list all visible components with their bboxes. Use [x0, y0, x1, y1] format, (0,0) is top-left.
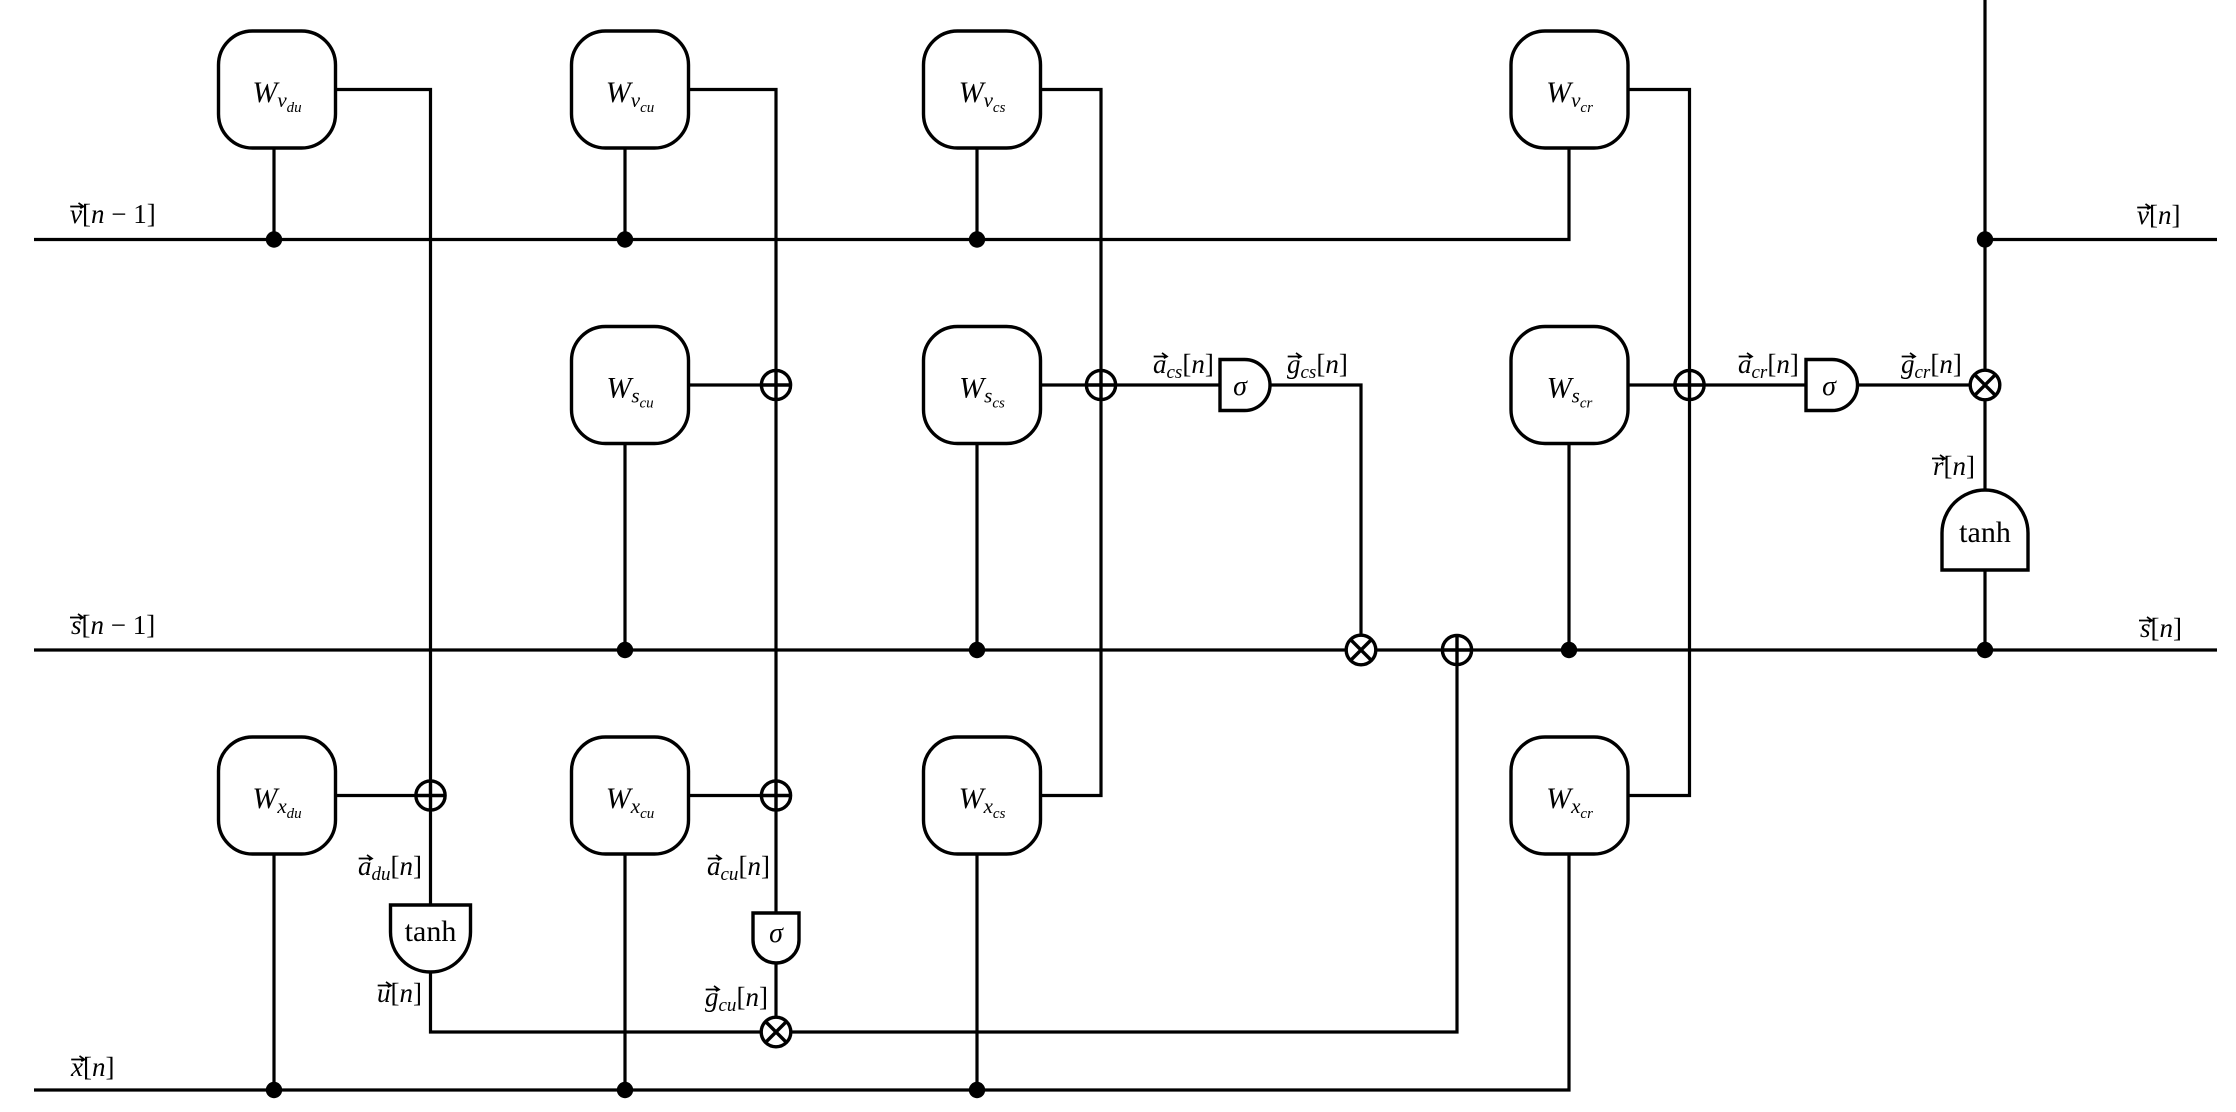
weight block W_s_cu — [572, 327, 689, 444]
junction dot x bus col cs — [969, 1082, 985, 1098]
wire W_s_cr bottom stub — [1567, 444, 1570, 651]
weight block W_s_cr — [1511, 327, 1628, 444]
wire W_v_cs bottom stub — [975, 148, 978, 240]
adder node at W_x_cu output — [761, 781, 790, 810]
gate tanh du (downward) — [391, 905, 471, 972]
wire W_x_du bottom stub — [272, 854, 275, 1090]
junction dot x bus col cu — [617, 1082, 633, 1098]
svg-text:gcs[n]: gcs[n] — [1287, 349, 1348, 383]
svg-text:s[n]: s[n] — [2140, 613, 2182, 643]
wire v[n] vertical from top edge to multiplier — [1983, 0, 1986, 370]
weight block W_v_cu — [572, 31, 689, 148]
weight block W_x_cu — [572, 737, 689, 854]
weight block W_x_cr — [1511, 737, 1628, 854]
svg-text:acr[n]: acr[n] — [1738, 349, 1799, 383]
wire W_s_cs bottom stub — [975, 444, 978, 651]
weight block W_x_du — [219, 737, 336, 854]
junction dot x bus col du — [266, 1082, 282, 1098]
wire x[n] bus — [34, 854, 1569, 1090]
wire W_v_cu bottom stub — [623, 148, 626, 240]
adder node at W_s_cr output — [1675, 370, 1704, 399]
junction dot v bus col cu — [617, 231, 633, 247]
adder node at W_s_cs output — [1086, 370, 1115, 399]
weight block W_v_cs — [924, 31, 1041, 148]
wire v[n] output segment — [1985, 238, 2217, 241]
wire s[n-1] bus — [34, 648, 2217, 651]
wire W_s_cs output through adder to sigma cs — [1041, 383, 1221, 386]
weight block W_v_cr — [1511, 31, 1628, 148]
svg-text:σ: σ — [1233, 371, 1248, 402]
wire W_x_cu output to adder — [689, 794, 777, 797]
wire W_x_cu bottom stub — [623, 854, 626, 1090]
junction dot s bus col cs — [969, 642, 985, 658]
svg-text:s[n − 1]: s[n − 1] — [71, 610, 155, 640]
wire tanh to s bus — [1983, 570, 1986, 650]
junction dot s bus col cr — [1561, 642, 1577, 658]
junction dot s bus tanh — [1977, 642, 1993, 658]
wire r[n] multiplier to tanh — [1983, 401, 1986, 491]
junction dot v bus col cs — [969, 231, 985, 247]
wire W_s_cu bottom stub — [623, 444, 626, 651]
gate sigma cr (rightward) — [1806, 360, 1858, 411]
wire W_s_cu output to adder — [689, 383, 777, 386]
junction dot v bus col du — [266, 231, 282, 247]
gate sigma cu (downward) — [753, 913, 799, 963]
weight block W_s_cs — [924, 327, 1041, 444]
svg-text:v[n − 1]: v[n − 1] — [70, 199, 156, 229]
wire g_cr to multiplier — [1858, 383, 1986, 386]
svg-text:x[n]: x[n] — [70, 1052, 114, 1082]
svg-text:gcr[n]: gcr[n] — [1901, 349, 1962, 383]
weight block W_v_du — [219, 31, 336, 148]
multiplier node g_cr r[n] — [1970, 370, 2000, 400]
wire v[n-1] bus — [34, 148, 1569, 240]
gate sigma cs (rightward) — [1220, 360, 1270, 411]
wire W_x_du output to adder — [336, 794, 431, 797]
junction dot v bus output — [1977, 231, 1993, 247]
wire W_v_cr output vertical down to W_x_cr output — [1628, 90, 1690, 796]
adder node at W_x_du output — [416, 781, 445, 810]
wire W_v_cs output vertical down to W_x_cs output — [1041, 90, 1102, 796]
wire u[n] line from tanh to adder on s bus — [431, 650, 1458, 1032]
wire W_v_cu output vertical — [689, 90, 777, 914]
svg-text:σ: σ — [769, 918, 784, 949]
wire W_x_cs bottom stub — [975, 854, 978, 1090]
svg-text:u[n]: u[n] — [377, 978, 422, 1008]
junction dot s bus col cu — [617, 642, 633, 658]
svg-text:σ: σ — [1822, 371, 1837, 402]
svg-text:r[n]: r[n] — [1933, 451, 1975, 481]
svg-text:acs[n]: acs[n] — [1153, 349, 1214, 383]
weight block W_x_cs — [924, 737, 1041, 854]
wire g_cs to multiplier on s bus — [1270, 385, 1361, 650]
wire W_v_du bottom stub — [272, 148, 275, 240]
wire W_s_cr output through adder to sigma cr — [1628, 383, 1806, 386]
multiplier node g_cs on s bus — [1346, 635, 1376, 665]
adder node on s bus — [1442, 635, 1471, 664]
wire sigma cu output to multiplier — [774, 963, 777, 1032]
svg-text:v[n]: v[n] — [2137, 200, 2180, 230]
svg-text:tanh: tanh — [1959, 516, 2011, 549]
adder node at W_s_cu output — [761, 370, 790, 399]
gate tanh r (upward) — [1942, 490, 2028, 570]
multiplier node g_cu on u line — [761, 1017, 791, 1047]
wire W_v_du output vertical — [336, 90, 431, 906]
svg-text:tanh: tanh — [405, 915, 457, 948]
